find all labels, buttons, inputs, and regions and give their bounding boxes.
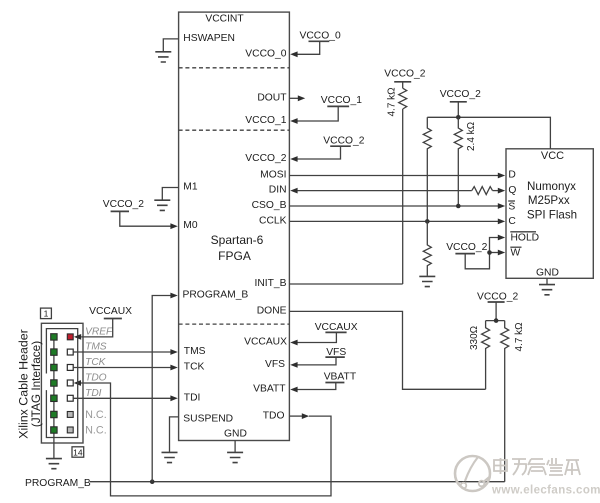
wire DONE routing: [289, 311, 485, 389]
svg-text:VCCO_2: VCCO_2: [446, 242, 487, 253]
svg-text:VCCO_2: VCCO_2: [440, 89, 481, 100]
header pin TDI square: [67, 395, 73, 401]
wire VCCO_2 tap to FPGA pin: [297, 146, 341, 159]
power tap VFS bar: [325, 356, 344, 358]
FPGA bank divider dashed line (bank 0): [179, 67, 290, 69]
wire VFS tap to FPGA pin: [297, 357, 336, 365]
svg-text:VREF: VREF: [85, 327, 113, 338]
ground (SUSPEND): [162, 452, 178, 462]
svg-text:SPI Flash: SPI Flash: [527, 208, 577, 221]
svg-text:GND: GND: [224, 429, 247, 440]
svg-text:VCCO_2: VCCO_2: [103, 199, 144, 210]
flash pin S overline: [508, 200, 515, 202]
svg-text:HSWAPEN: HSWAPEN: [183, 33, 235, 44]
wire resistor to flash Q: [493, 190, 499, 192]
wire VCCO_0 tap to FPGA pin: [297, 41, 320, 54]
header pin VREF (red square): [67, 334, 73, 340]
header pin N.C. square (pin 13): [67, 427, 73, 433]
junction pullup rail: [494, 318, 499, 323]
svg-text:DOUT: DOUT: [257, 92, 287, 103]
svg-text:N.C.: N.C.: [85, 425, 107, 437]
svg-text:CCLK: CCLK: [259, 215, 287, 226]
watermark logo circle: [455, 456, 490, 491]
power tap VCCO_0 bar: [309, 40, 330, 42]
svg-text:TDO: TDO: [85, 372, 107, 383]
power tap VCCO_2 (HOLD/W) bar: [455, 253, 475, 255]
wire tap to resistor: [402, 82, 404, 88]
arrowhead into FPGA M0: [170, 223, 177, 229]
FPGA U1 Spartan-6 body: [179, 12, 290, 440]
svg-text:4.7 kΩ: 4.7 kΩ: [514, 322, 525, 352]
wire TMS header to FPGA: [73, 351, 171, 353]
wire pullup rail: [486, 320, 505, 322]
wire PROGRAM_B up to FPGA pin: [152, 296, 171, 482]
arrowhead into FPGA TDI: [170, 395, 177, 401]
svg-text:M1: M1: [183, 182, 198, 193]
svg-text:PROGRAM_B: PROGRAM_B: [25, 478, 91, 489]
header pin TCK square: [67, 365, 73, 371]
svg-text:VCCAUX: VCCAUX: [244, 337, 287, 348]
junction VCC rail / 2.4k: [456, 115, 461, 120]
resistor R 4.7 kOhm (INIT_B pullup): [399, 88, 407, 109]
wire DOUT output: [289, 97, 298, 99]
arrowhead into FPGA VCCO_0: [290, 51, 297, 57]
power tap VCCO_2 (M0) bar: [111, 210, 129, 212]
flash pin W overline: [510, 246, 521, 248]
power tap VCCAUX (VREF) bar: [104, 318, 122, 320]
svg-text:VFS: VFS: [265, 359, 285, 370]
arrowhead into flash Q: [498, 188, 505, 194]
svg-text:14: 14: [73, 447, 83, 457]
wire CSO_B to flash S: [289, 205, 498, 207]
wire resistor to INIT_B line: [402, 109, 404, 284]
svg-text:VCCAUX: VCCAUX: [315, 322, 358, 333]
svg-text:2.4 kΩ: 2.4 kΩ: [466, 121, 477, 151]
svg-text:(JTAG Interface): (JTAG Interface): [29, 341, 43, 427]
svg-text:M25Pxx: M25Pxx: [528, 194, 570, 207]
watermark CJK text (stylised): [494, 458, 580, 475]
svg-text:PROGRAM_B: PROGRAM_B: [183, 290, 249, 301]
arrowhead into flash HOLD: [498, 235, 505, 241]
svg-text:HOLD: HOLD: [511, 233, 540, 244]
svg-text:SUSPEND: SUSPEND: [183, 413, 233, 424]
wire TDI header to FPGA: [73, 397, 171, 399]
svg-text:M0: M0: [183, 220, 198, 231]
wire flash GND to ground: [546, 278, 548, 284]
wire tap down to VCC rail: [457, 102, 459, 118]
wire VCCO_1 tap to FPGA pin: [297, 106, 338, 121]
wire flash Q to DIN: [297, 190, 471, 192]
svg-text:VCCO_0: VCCO_0: [245, 48, 286, 59]
resistor R 330 Ohm (DONE pullup): [482, 321, 490, 390]
JTAG header inner shroud with key notch: [46, 329, 77, 438]
svg-text:S: S: [508, 201, 515, 212]
svg-text:VBATT: VBATT: [324, 372, 357, 383]
svg-text:VCCO_2: VCCO_2: [245, 153, 286, 164]
resistor R 4.7 kOhm (PROGRAM_B pullup): [501, 321, 509, 482]
wire VCCAUX tap to FPGA pin: [297, 332, 337, 342]
wire VCC rail to flash VCC: [427, 117, 550, 149]
arrowhead into FPGA VBATT: [290, 387, 297, 393]
svg-text:VCCO_1: VCCO_1: [245, 115, 286, 126]
svg-text:1: 1: [44, 309, 49, 319]
arrowhead into FPGA VFS: [290, 362, 297, 368]
svg-text:TDO: TDO: [263, 410, 285, 421]
flash pin HOLD overline: [510, 231, 536, 233]
svg-text:C: C: [508, 216, 516, 227]
arrowhead into FPGA VCCO_1: [290, 118, 297, 124]
svg-text:TCK: TCK: [85, 357, 107, 368]
arrowhead into flash C: [498, 219, 505, 225]
FPGA bank divider dashed line (bank 2): [179, 323, 290, 325]
svg-text:VCCAUX: VCCAUX: [89, 306, 132, 317]
svg-text:CSO_B: CSO_B: [252, 200, 287, 211]
power tap VBATT bar: [325, 382, 344, 384]
svg-text:VCCO_0: VCCO_0: [300, 31, 341, 42]
svg-text:Q: Q: [508, 185, 516, 196]
wire VCCAUX tap to VREF pin: [81, 319, 113, 337]
ground (flash GND): [539, 285, 555, 295]
arrowhead into flash S: [498, 203, 505, 209]
resistor (series on Q/DIN line): [472, 187, 493, 195]
FPGA bank divider dashed line (bank 1): [179, 129, 290, 131]
wire ground chain of header: [53, 337, 55, 458]
arrowhead into FPGA TCK: [170, 365, 177, 371]
junction PROGRAM_B: [150, 479, 155, 484]
svg-text:INIT_B: INIT_B: [254, 278, 286, 289]
power tap VCCO_1 bar: [327, 105, 349, 107]
svg-text:TDI: TDI: [85, 388, 102, 399]
svg-text:VCCO_1: VCCO_1: [321, 95, 362, 106]
svg-text:DIN: DIN: [269, 185, 287, 196]
svg-text:VBATT: VBATT: [253, 384, 286, 395]
wire TDO return to JTAG header: [81, 383, 331, 496]
junction W branch: [487, 250, 492, 255]
wire VCCO_2 tap to M0 pin: [120, 211, 171, 226]
resistor (CCLK pullup): [423, 117, 431, 221]
header ground pin squares (left column): [51, 334, 57, 433]
wire INIT_B: [289, 283, 402, 285]
power tap VCCO_2 (DONE/PROGRAM_B pullups) bar: [488, 301, 505, 303]
arrowhead into flash D: [498, 173, 505, 179]
ground (JTAG header): [46, 459, 62, 469]
wire MOSI to flash D: [289, 175, 498, 177]
arrowhead into FPGA DIN: [290, 188, 297, 194]
resistor R 2.4 kOhm (S pullup): [454, 117, 462, 206]
wire SUSPEND to ground: [170, 417, 179, 452]
arrowhead into header TDO: [74, 380, 81, 386]
svg-text:TCK: TCK: [184, 362, 205, 373]
ground (HSWAPEN): [155, 52, 171, 62]
power tap VCCO_2 (flash VCC) bar: [450, 101, 467, 103]
arrowhead into FPGA PROGRAM_B: [170, 293, 177, 299]
pin 14 marker box: [72, 447, 84, 457]
power tap VCCO_2 (INIT_B pullup) bar: [394, 81, 411, 83]
svg-text:N.C.: N.C.: [85, 409, 107, 421]
arrowhead TDO direction: [302, 413, 309, 419]
svg-text:VCCO_2: VCCO_2: [477, 291, 518, 302]
svg-text:VCC: VCC: [541, 150, 564, 162]
ground (M1): [154, 200, 170, 210]
arrowhead into FPGA TMS: [170, 349, 177, 355]
wire TCK header to FPGA: [73, 367, 171, 369]
wire FPGA GND to ground: [234, 441, 236, 452]
SPI flash U2 body: [506, 149, 593, 278]
junction CCLK line: [425, 219, 430, 224]
wire HSWAPEN to ground: [163, 39, 178, 51]
wire VCCO_2 to HOLD: [465, 238, 498, 269]
wire M1 to ground: [162, 188, 178, 200]
arrowhead into FPGA VCCAUX: [290, 340, 297, 346]
header pin N.C. square (pin 11): [67, 412, 73, 418]
svg-text:Numonyx: Numonyx: [527, 180, 576, 193]
svg-text:MOSI: MOSI: [260, 170, 286, 181]
svg-text:4.7 kΩ: 4.7 kΩ: [387, 87, 398, 117]
arrowhead DOUT: [298, 95, 305, 101]
header pin TDO square: [67, 380, 73, 386]
svg-text:330Ω: 330Ω: [469, 325, 480, 350]
arrowhead into flash W: [498, 250, 505, 256]
svg-text:Spartan-6: Spartan-6: [211, 233, 264, 247]
wire VBATT tap to FPGA pin: [297, 383, 336, 390]
JTAG header J1 outer body: [41, 323, 83, 443]
svg-text:TMS: TMS: [184, 346, 206, 357]
svg-text:VCCO_2: VCCO_2: [384, 68, 425, 79]
svg-text:VCCO_2: VCCO_2: [323, 135, 364, 146]
svg-text:VFS: VFS: [326, 347, 346, 358]
ground (FPGA GND): [227, 452, 243, 462]
arrowhead into FPGA VCCO_2: [290, 156, 297, 162]
svg-text:TMS: TMS: [85, 341, 107, 352]
wire tap down to pullup rail: [495, 302, 497, 321]
arrowhead into header VREF: [74, 334, 81, 340]
power tap VCCAUX (FPGA) bar: [325, 331, 346, 333]
header pin TMS square: [67, 349, 73, 355]
wire branch to W pin: [490, 252, 499, 254]
junction S line: [456, 204, 461, 209]
svg-text:FPGA: FPGA: [218, 249, 251, 263]
svg-text:D: D: [508, 170, 515, 181]
ground (CCLK pulldown): [419, 276, 435, 286]
svg-text:TDI: TDI: [184, 393, 201, 404]
pin 1 marker box: [41, 308, 52, 319]
svg-text:DONE: DONE: [257, 305, 287, 316]
wire TDO from FPGA: [289, 415, 302, 417]
wire CCLK to flash C: [289, 220, 498, 222]
wire PROGRAM_B net: [90, 481, 505, 483]
svg-text:VCCINT: VCCINT: [205, 14, 244, 25]
svg-text:GND: GND: [536, 268, 559, 279]
svg-text:W: W: [511, 248, 521, 259]
svg-text:www.elecfans.com: www.elecfans.com: [491, 485, 600, 497]
resistor (CCLK pulldown to ground): [423, 221, 431, 275]
power tap VCCO_2 (bank 2 supply) bar: [330, 145, 351, 147]
